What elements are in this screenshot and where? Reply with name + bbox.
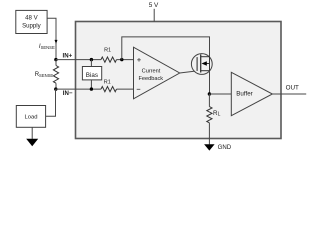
wire R1 top to opamp xyxy=(117,59,134,61)
resistor R1 top xyxy=(101,57,117,62)
node feedback junction dot xyxy=(120,58,123,61)
svg-text:IN−: IN− xyxy=(63,90,73,97)
svg-text:GND: GND xyxy=(218,144,232,151)
voltage source 48V supply xyxy=(16,10,47,33)
current direction arrow Isense xyxy=(55,40,58,44)
wire node to buffer xyxy=(209,93,231,95)
svg-text:Current: Current xyxy=(142,68,161,74)
svg-text:RL: RL xyxy=(213,110,221,118)
node IN- junction dot xyxy=(54,87,57,90)
wire source to output node xyxy=(209,71,211,94)
svg-text:R1: R1 xyxy=(104,48,111,54)
node bias top junction dot xyxy=(90,58,93,61)
ground symbol GND xyxy=(204,144,215,150)
buffer amplifier xyxy=(231,72,272,115)
svg-text:IN+: IN+ xyxy=(63,52,73,59)
load block xyxy=(16,106,45,128)
resistor Rsense xyxy=(55,60,57,66)
IC boundary box xyxy=(76,22,282,139)
svg-text:Supply: Supply xyxy=(22,23,42,30)
svg-text:Buffer: Buffer xyxy=(236,91,252,98)
svg-text:Bias: Bias xyxy=(86,72,98,79)
svg-text:5 V: 5 V xyxy=(149,2,159,9)
svg-text:ISENSE: ISENSE xyxy=(39,44,55,50)
wire load to ground xyxy=(31,127,33,139)
op-amp current feedback amplifier xyxy=(134,47,180,99)
wire 5V pin xyxy=(153,9,155,22)
svg-text:48 V: 48 V xyxy=(25,15,38,22)
svg-text:Load: Load xyxy=(24,115,37,121)
wire IN+ line into IC xyxy=(56,59,101,61)
wire bias top xyxy=(90,60,92,67)
wire buffer to OUT xyxy=(272,93,306,95)
wire load to IN- node xyxy=(46,89,56,116)
wire feedback loop xyxy=(122,37,210,60)
node output junction dot xyxy=(208,92,211,95)
wire opamp output to gate xyxy=(180,71,197,73)
resistor R1 bottom xyxy=(101,87,117,92)
resistor RL xyxy=(208,94,210,107)
svg-text:RSENSE: RSENSE xyxy=(35,72,54,78)
svg-text:R1: R1 xyxy=(104,79,111,85)
transistor Q1 MOSFET xyxy=(191,54,212,75)
wire bias bottom xyxy=(90,80,92,89)
bias block xyxy=(82,67,101,80)
wire R1 bottom to opamp xyxy=(117,88,134,90)
node IN+ junction dot xyxy=(54,58,57,61)
node bias bottom junction dot xyxy=(90,87,93,90)
wire IN- line into IC xyxy=(56,88,101,90)
wire supply to IN+ rail xyxy=(47,18,56,59)
svg-text:Feedback: Feedback xyxy=(139,76,164,82)
svg-text:OUT: OUT xyxy=(286,84,299,91)
wire RL to ground xyxy=(208,123,210,145)
ground symbol below load xyxy=(26,139,38,147)
